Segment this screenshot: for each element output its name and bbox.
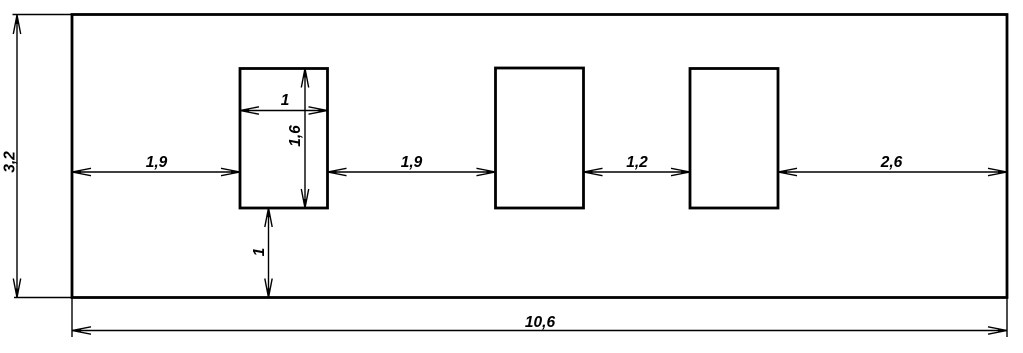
arrow right at (327.5,110.5): [309, 107, 328, 114]
svg-text:10,6: 10,6: [525, 314, 556, 331]
svg-text:1,9: 1,9: [401, 154, 423, 171]
extension line bottom-left: [14, 297, 72, 299]
dimension line 1,2 (between window 2 and window 3): [584, 171, 691, 173]
dimension line 1 (window 1 bottom to plate bottom): [268, 208, 270, 298]
arrow left at (240,110.5): [240, 107, 259, 114]
arrow up at (305,68.5): [301, 69, 308, 88]
extension line top-left: [13, 14, 73, 16]
dimension line 1 (width of window 1): [240, 110, 328, 112]
dimension line 1,9 (between window 1 and window 2): [328, 171, 496, 173]
arrow right at (690,172): [671, 168, 690, 175]
plate outline (10,6 x 3,2): [72, 15, 1007, 298]
arrow left at (327.5,172): [328, 168, 347, 175]
dimension line 1,9 (left span): [72, 171, 240, 173]
svg-text:2,6: 2,6: [880, 154, 903, 171]
svg-text:1: 1: [281, 92, 290, 109]
svg-text:1,2: 1,2: [626, 154, 648, 171]
arrow right at (1007,330.5): [988, 327, 1007, 334]
svg-text:1,6: 1,6: [287, 125, 304, 147]
svg-text:1,9: 1,9: [146, 154, 168, 171]
arrow right at (240,172): [221, 168, 240, 175]
svg-text:3,2: 3,2: [2, 151, 19, 173]
arrow right at (495.5,172): [477, 168, 496, 175]
arrow right at (1007,172): [988, 168, 1007, 175]
arrow up at (268.5,208): [265, 208, 272, 227]
extension line bottom (right edge extended): [1006, 298, 1008, 338]
window 1: [240, 69, 328, 209]
arrow down at (305,208): [301, 189, 308, 208]
arrow down at (268.5,297.5): [265, 279, 272, 298]
arrow left at (72,330.5): [72, 327, 91, 334]
svg-text:1: 1: [251, 248, 268, 257]
arrow down at (17,297.5): [13, 279, 20, 298]
dimension line 10,6 (bottom overall): [72, 330, 1007, 332]
extension line bottom (left edge extended): [71, 298, 73, 338]
window 2: [496, 68, 584, 208]
arrow left at (778,172): [778, 168, 797, 175]
arrow left at (72,172): [72, 168, 91, 175]
dimension line 3,2 (vertical left): [16, 15, 18, 298]
window 3: [690, 69, 778, 209]
dimension line 1,6 (height of window 1): [304, 69, 306, 209]
arrow up at (17,15): [13, 15, 20, 34]
arrow left at (583.5,172): [584, 168, 603, 175]
dimension line 2,6 (window 3 to right edge): [778, 171, 1007, 173]
